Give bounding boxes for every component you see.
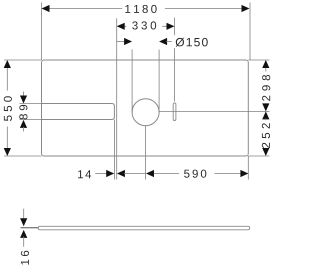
dimension 298 line [265,67,267,104]
console outline (top view rectangle) [42,60,249,156]
extension line top-right vertical [249,3,251,61]
dimension 252 line [265,118,267,120]
dimension 16 upper arrow [20,218,27,226]
dimension 1180 left arrow [42,5,50,12]
dimension 298 bottom arrow [262,103,269,111]
dimension 590 label [184,170,189,178]
dimension D150 label [176,38,185,47]
extension line left of bottom edge [4,155,42,157]
dimension 330 label [132,21,137,29]
dimension 298 top arrow [262,60,269,68]
dimension 14 label [78,170,83,178]
dimension D150 left tail [117,41,125,43]
dimension 252 top arrow [262,111,269,119]
dimension 16 lower line [23,236,25,247]
dimension 550 label [4,115,12,120]
dimension 1180 right arrow [242,5,250,12]
dimension 330 right arrow [167,23,175,30]
dimension 14 left arrow [106,170,114,177]
extension line right of top edge [248,59,269,61]
dimension 89 lower tail [23,127,25,132]
dimension 252 label [262,143,270,148]
dimension 330 left arrow [117,23,125,30]
extension line node B vertical x=116.7 [116,18,118,179]
extension line slot vertical upper [174,18,176,36]
basin hole circle Ø150 [132,99,159,126]
dimension 298 label [262,96,270,101]
extension line shelf bottom to 89 dim [20,119,42,121]
side view slab [38,226,249,230]
extension line circle center down [145,126,147,180]
mounting slot [173,103,176,121]
dimension D150 left arrow [124,38,132,45]
extension line top-left vertical [41,3,43,61]
dimension D150 right arrow [159,38,167,45]
dimension 252 bottom arrow [262,148,269,156]
extension line left of top edge [4,59,42,61]
dimension 16 lower arrow [20,230,27,238]
extension line shelf edge down [113,120,115,180]
shelf cutout (inner rounded shape) [42,104,115,120]
dimension D150 right tail [166,41,172,43]
dimension 590 left arrow [146,170,154,177]
dimension 1180 line [49,8,243,10]
extension line right of bottom edge [248,155,269,157]
dimension 89 upper tail [23,92,25,97]
dimension 14 right tail [124,173,146,175]
extension line bottom-right vertical [247,156,249,180]
dimension 1180 label [125,5,130,13]
dimension 550 top arrow [4,60,11,68]
dimension 89 upper arrow [20,96,27,104]
dimension 590 line [153,173,241,175]
dimension 550 line [6,67,8,149]
extension line circle center to right [159,110,269,112]
dimension 14 left tail [95,173,107,175]
dimension 590 right arrow [240,170,248,177]
dimension 16 label [21,260,29,265]
dimension 89 label [19,114,27,119]
dimension 14 right arrow [117,170,125,177]
dimension 550 bottom arrow [4,148,11,156]
extension line shelf top to 89 dim [20,103,42,105]
extension line circle right tangent [158,50,160,113]
extension line slot vertical lower [174,48,176,102]
dimension 89 lower arrow [20,120,27,128]
dimension 16 upper line [23,209,25,220]
extension line circle left tangent [131,50,133,113]
extension line slab left [21,227,39,229]
dimension 330 line [124,25,168,27]
